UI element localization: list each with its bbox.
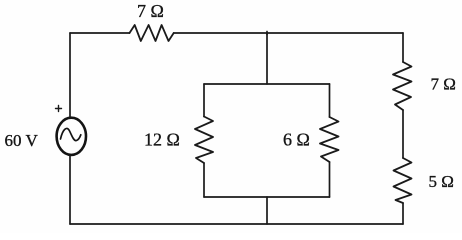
wire bottom edge of parallel block [204, 196, 330, 198]
wire top horizontal segment to right branch [174, 32, 403, 34]
wire left vertical (top of source) [69, 33, 71, 117]
voltage source 60 V (AC) [57, 118, 86, 155]
wire left branch upper lead [203, 84, 205, 117]
resistor 7 ohm (right branch upper, vertical) [393, 62, 412, 110]
svg-text:6 Ω: 6 Ω [283, 130, 310, 150]
wire right branch lower lead of parallel block [329, 162, 331, 197]
resistor 5 ohm (right branch lower, vertical) [394, 158, 412, 203]
svg-text:7 Ω: 7 Ω [431, 75, 456, 94]
wire top-left horizontal segment [70, 32, 130, 34]
wire top edge of parallel block [204, 83, 330, 85]
svg-text:7 Ω: 7 Ω [137, 1, 164, 21]
node junction top middle [266, 32, 268, 35]
wire right vertical lower lead [402, 203, 404, 224]
svg-text:12 Ω: 12 Ω [144, 130, 180, 150]
resistor 12 ohm (left branch, vertical) [195, 117, 213, 164]
resistor 7 ohm (top, horizontal) [130, 25, 174, 41]
svg-text:60 V: 60 V [5, 131, 39, 150]
resistor 6 ohm (right branch of parallel block, vertical) [320, 117, 339, 162]
wire bottom horizontal [70, 223, 403, 225]
wire middle vertical from top node to parallel block [266, 33, 268, 84]
wire left vertical (bottom of source) [69, 156, 71, 225]
wire right vertical middle lead [402, 110, 404, 158]
wire middle vertical from parallel block to bottom node [266, 197, 268, 224]
svg-text:5 Ω: 5 Ω [429, 172, 454, 191]
wire left branch lower lead [203, 163, 205, 197]
wire right branch upper lead of parallel block [329, 84, 331, 117]
polarity + mark of source [56, 106, 62, 112]
wire right vertical upper lead [402, 33, 404, 62]
